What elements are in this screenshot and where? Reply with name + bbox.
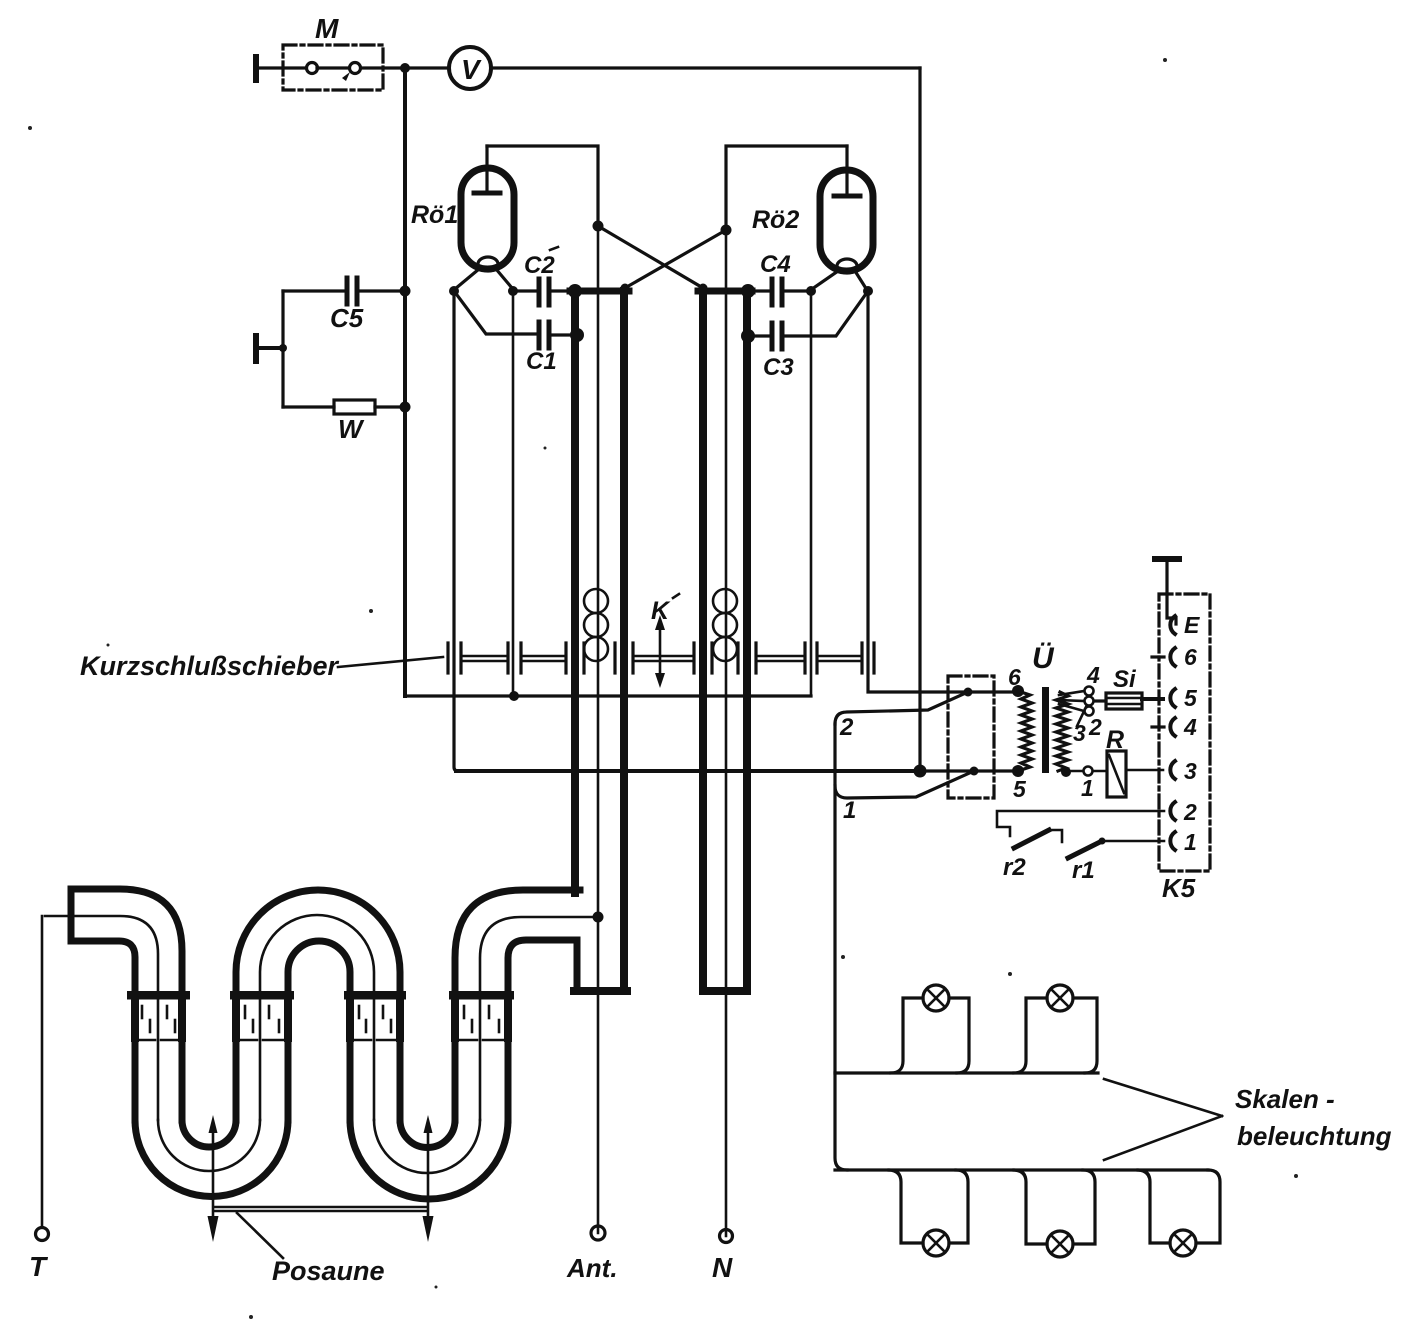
trombone straight legs through collars [350, 997, 508, 1120]
trombone hump (inner) [288, 941, 350, 997]
wire 2 (heater feed) [835, 692, 968, 724]
svg-text:2: 2 [1183, 799, 1197, 825]
svg-text:4: 4 [1183, 714, 1197, 740]
svg-text:M: M [315, 13, 339, 44]
wire (left tank top join) [570, 288, 629, 295]
resistor R [1107, 751, 1163, 797]
svg-text:C3: C3 [763, 354, 794, 381]
node [699, 284, 708, 293]
node (C5 on box edge) [400, 286, 411, 297]
wire (Rö1 cathode line down) [454, 291, 458, 771]
wire (Rö2 cathode line to switch) [868, 291, 968, 692]
svg-text:r1: r1 [1072, 857, 1095, 884]
switch box (dash-dot) [948, 676, 994, 798]
wire (Rö1 grid line) [512, 291, 515, 696]
wire (cross-coupling Rö2 anode to left tank) [625, 230, 726, 288]
node (Rö1 anode node) [593, 221, 604, 232]
svg-text:1: 1 [843, 797, 856, 824]
arrow (U1 slide adjust) [208, 1115, 219, 1242]
svg-text:Posaune: Posaune [272, 1256, 385, 1286]
node (C3 to bar) [741, 329, 755, 343]
svg-text:Skalen -: Skalen - [1235, 1084, 1335, 1114]
tube Rö1 [455, 146, 514, 289]
svg-text:Si: Si [1113, 666, 1137, 693]
svg-text:W: W [338, 414, 365, 444]
transformer U primary winding [1012, 685, 1032, 777]
voltmeter V [449, 47, 491, 89]
wire (C5/W loop left side) [281, 291, 284, 407]
node (antenna tap) [593, 912, 604, 923]
trombone U2 bottom (thin) [374, 1120, 480, 1173]
wire (heater bus to transformer) [456, 769, 920, 773]
svg-text:1: 1 [1081, 775, 1094, 801]
node (C1 to bar) [570, 328, 584, 342]
wire (Rö2 anode line down to N) [725, 230, 728, 1236]
lamp loop 3 (lower) [889, 1170, 968, 1256]
wire (lower lamp bus) [835, 1168, 1208, 1171]
label Posaune with pointer [237, 1213, 283, 1258]
trombone outer tube wall (T end, top-left run and U1 left leg) [71, 889, 182, 1120]
coil (right tank coupling coil) [713, 589, 737, 661]
slider tie bar [214, 1207, 427, 1211]
node [621, 284, 630, 293]
transformer taps 4,2,3 [1059, 687, 1094, 727]
node (C2 to bar) [568, 284, 582, 298]
terminal N [720, 1230, 733, 1243]
switch M (dash-dot box) [283, 45, 402, 90]
capacitor C1 [454, 291, 573, 348]
svg-text:6: 6 [1008, 664, 1021, 690]
lecher bar left-outer [571, 291, 579, 893]
wire (upper contact to transformer 6) [968, 690, 1018, 693]
trombone right bend to tank (outer wall to top) [455, 890, 580, 991]
trombone U1 bottom (outer slide U) [135, 1120, 288, 1197]
trombone U2 bottom (outer) [350, 1120, 508, 1199]
lamp loop 4 (lower) [1014, 1170, 1095, 1257]
transformer tap 1 and wire to R [1061, 767, 1107, 778]
trombone U2 bottom (inner) [400, 1120, 455, 1148]
svg-text:C2: C2 [524, 252, 555, 279]
terminal 6 [1170, 648, 1175, 666]
slider rails [462, 656, 861, 661]
wire (grid-circuit box left edge) [403, 68, 407, 696]
svg-text:2: 2 [1088, 714, 1102, 740]
terminal T [36, 916, 49, 1241]
svg-text:Ü: Ü [1032, 642, 1055, 675]
wire (Rö1 anode line down to antenna tap) [597, 226, 600, 1233]
trombone hump between U1 and U2 (outer) [236, 890, 400, 997]
svg-text:K5: K5 [1162, 873, 1196, 903]
trombone U1 bottom (thin pipe U) [158, 1120, 260, 1171]
node (heater junction right vertical) [914, 765, 927, 778]
trombone collar caps (slide joints) [127, 991, 190, 1000]
terminal 3 [1170, 761, 1175, 779]
terminal 2 [1170, 802, 1175, 820]
terminal 4 [1170, 718, 1175, 736]
wire (Rö2 grid line) [810, 291, 813, 696]
resistor W [283, 400, 403, 414]
arrow (coupling adjust) [655, 615, 665, 688]
node (Rö1 grid lead) [508, 286, 518, 296]
svg-text:Rö1: Rö1 [411, 201, 458, 229]
node (Rö2 grid lead) [806, 286, 816, 296]
trombone right bend (thin pipe to antenna tap) [480, 917, 597, 991]
svg-text:3: 3 [1073, 720, 1086, 746]
lamp loop 1 (upper) [891, 985, 969, 1073]
capacitor C4 [750, 279, 811, 305]
svg-text:C1: C1 [526, 348, 557, 375]
wire (cross-coupling Rö1 anode to right tank) [598, 226, 703, 288]
svg-text:1: 1 [1184, 829, 1197, 855]
node (switch upper contact) [964, 688, 973, 697]
terminal E [1170, 616, 1175, 634]
transformer secondary winding [1056, 692, 1068, 771]
svg-text:beleuchtung: beleuchtung [1237, 1121, 1392, 1151]
svg-text:Ant.: Ant. [566, 1253, 618, 1283]
collar hatching U1L [137, 1006, 180, 1040]
svg-text:2: 2 [839, 714, 854, 741]
wire (upper lamp bus) [835, 1071, 1098, 1074]
contact r1 [1068, 838, 1164, 859]
capacitor C3 [748, 291, 868, 349]
collar hatching U1R [240, 1006, 284, 1040]
node (Rö2 cathode lead) [863, 286, 873, 296]
terminal strip K5 (dash-dot box) [1159, 594, 1210, 871]
wire (right tank top join) [698, 288, 752, 295]
coil (left tank coupling coil) [584, 589, 608, 661]
svg-text:R: R [1106, 726, 1124, 754]
wire (top bus to voltmeter) [405, 66, 448, 69]
contact r2 [1014, 830, 1062, 848]
svg-text:r2: r2 [1003, 854, 1026, 881]
tube Rö2 [812, 146, 873, 290]
svg-text:5: 5 [1184, 685, 1198, 711]
svg-text:3: 3 [1184, 758, 1197, 784]
node (C4 to bar) [741, 284, 755, 298]
wire (Rö1 anode top lead) [487, 146, 598, 226]
collar hatching U2L [354, 1006, 396, 1040]
svg-text:C5: C5 [330, 303, 364, 333]
capacitor C2 [513, 279, 572, 305]
node (switch lower contact) [970, 767, 979, 776]
trombone hump (thin) [260, 915, 374, 997]
terminal (grid bias tap) [253, 333, 287, 364]
label Skalenbeleuchtung with pointer [1104, 1079, 1392, 1160]
wire (tube bottom wall into left tank short) [574, 940, 581, 991]
node (W on box edge) [400, 402, 411, 413]
node (Rö2 anode node) [721, 225, 732, 236]
collar hatching U2R [459, 1006, 503, 1040]
wire (lamp feed vertical) [835, 724, 847, 1170]
terminal 1 [1170, 832, 1175, 850]
wire (Rö2 anode top lead) [726, 146, 847, 230]
svg-text:V: V [461, 54, 482, 85]
capacitor C5 [283, 278, 403, 304]
trombone U1 bottom (inner pipe U) [182, 1120, 236, 1147]
terminal 5 [1170, 689, 1175, 707]
lecher bar right-inner [699, 291, 707, 991]
wire 1 (heater feed) [835, 771, 974, 798]
node (grid line to box bottom) [509, 691, 519, 701]
wire (right vertical down to heater junction) [918, 68, 921, 771]
wire (grid-circuit box bottom edge) [405, 694, 811, 697]
arrow (U2 slide adjust) [423, 1115, 434, 1242]
svg-text:E: E [1184, 612, 1200, 638]
svg-text:N: N [712, 1252, 733, 1283]
svg-text:6: 6 [1184, 644, 1197, 670]
svg-text:T: T [29, 1251, 49, 1282]
wire (heater bus into switch box) [920, 769, 1018, 772]
svg-text:C4: C4 [760, 251, 791, 278]
trombone right bend (inner wall to bottom) [508, 940, 577, 991]
collar wall thickening [135, 999, 508, 1038]
svg-text:Kurzschlußschieber: Kurzschlußschieber [80, 651, 340, 681]
wire (voltmeter to right vertical) [491, 66, 920, 69]
lamp loop 5 (lower) [1138, 1170, 1220, 1256]
wire (right tank bottom short) [703, 987, 747, 995]
svg-text:4: 4 [1086, 662, 1100, 688]
lamp loop 2 (upper) [1014, 985, 1097, 1073]
transformer core [1042, 687, 1049, 773]
svg-text:Rö2: Rö2 [752, 206, 799, 234]
wire (terminal 2 feed) [997, 811, 1164, 836]
terminal (earth above K5) [1152, 556, 1182, 624]
terminal Ant [591, 1226, 605, 1240]
lecher bar left-inner [620, 291, 628, 991]
trombone inner pipe (thin line from T) [45, 916, 158, 1120]
fuse Si [1094, 693, 1163, 709]
svg-text:5: 5 [1013, 776, 1027, 802]
node (Rö1 cathode lead) [449, 286, 459, 296]
lecher bar right-outer [743, 291, 751, 991]
terminal (mains input at M) [253, 54, 305, 83]
node (M / box top-left junction) [400, 63, 410, 73]
slider caps (Kurzschlussschieber rails) [448, 643, 874, 673]
